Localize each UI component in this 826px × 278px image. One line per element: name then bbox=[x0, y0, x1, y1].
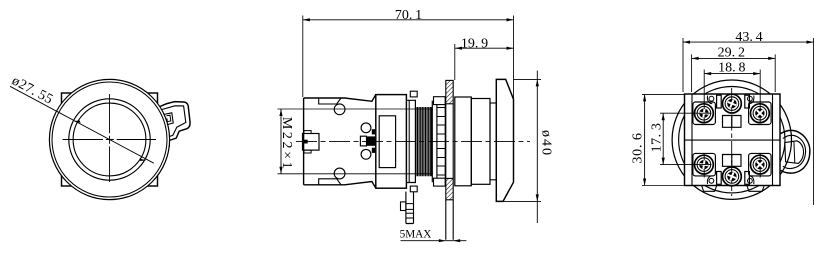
screw center-bottom bbox=[723, 167, 742, 186]
ext lines Ø40 bbox=[503, 79, 541, 201]
screw left-bottom bbox=[695, 155, 714, 174]
screw circle bottom bbox=[334, 168, 345, 179]
latch block left bbox=[303, 134, 320, 151]
screw right-bottom bbox=[751, 155, 770, 174]
tab key cylinder bbox=[785, 141, 804, 164]
svg-text:43. 4: 43. 4 bbox=[735, 30, 762, 45]
middle divider bbox=[685, 139, 781, 141]
panel lines bbox=[446, 104, 453, 240]
latch tab bottom bbox=[304, 150, 311, 153]
screw pads bbox=[693, 102, 716, 125]
body inner rect bbox=[379, 116, 395, 168]
clip notch top bbox=[319, 98, 341, 104]
tiny corner circles bottom bbox=[709, 178, 714, 183]
window squares top bbox=[723, 116, 742, 128]
inner vertical lines bbox=[692, 94, 773, 186]
thread band bbox=[416, 107, 432, 176]
centerline bbox=[296, 140, 530, 142]
dim 18.8 bbox=[704, 73, 760, 75]
M22 extension line top bbox=[278, 108, 434, 110]
screw right-top bbox=[751, 104, 770, 123]
tab key arrow bbox=[167, 115, 171, 122]
screw centerline verticals (18.8 ext through screws) bbox=[704, 94, 760, 178]
plunger circle bottom bbox=[361, 149, 371, 159]
button outer circle bbox=[69, 99, 150, 180]
svg-text:ø40: ø40 bbox=[539, 130, 554, 157]
feet bottom-right bbox=[747, 186, 764, 192]
dim Ø40 line bbox=[536, 71, 538, 224]
screw center-top bbox=[723, 94, 742, 113]
label Ø27.55 bbox=[9, 73, 55, 107]
plunger tick bottom bbox=[372, 148, 375, 153]
tab inner outline bbox=[162, 106, 186, 138]
feet bottom-left bbox=[702, 186, 717, 192]
label M22x1 bbox=[279, 117, 294, 171]
crosshair horizontal centerline bbox=[63, 139, 157, 141]
neck bbox=[490, 103, 496, 180]
ext line left 19.9 bbox=[454, 44, 456, 80]
bezel collar bbox=[455, 97, 472, 186]
label Ø40 bbox=[539, 130, 554, 157]
label 30.6 bbox=[631, 132, 646, 163]
ext line left 70.1 bbox=[302, 16, 304, 98]
dim 30.6 bbox=[644, 94, 646, 185]
terminal block (white fill covers circle) bbox=[685, 94, 781, 186]
bezel outer circle (fill white hides square/tab inner parts) bbox=[49, 79, 169, 199]
front plate bbox=[406, 100, 415, 182]
arrowhead upper-left bbox=[74, 120, 81, 123]
plunger tick top bbox=[372, 129, 375, 134]
screw left-top bbox=[695, 104, 714, 123]
panel section hatch top bbox=[446, 80, 453, 103]
step ring bbox=[471, 99, 490, 185]
arrowhead lower-right bbox=[139, 159, 146, 162]
dim 43.4 bbox=[683, 41, 814, 43]
latch filled square bbox=[303, 140, 308, 144]
mounting square behind bezel bbox=[62, 93, 158, 186]
svg-text:18. 8: 18. 8 bbox=[718, 61, 745, 76]
svg-text:29. 2: 29. 2 bbox=[718, 46, 745, 61]
key tab top bbox=[410, 91, 417, 97]
window squares bottom bbox=[723, 155, 742, 167]
svg-text:M22×1: M22×1 bbox=[279, 117, 294, 171]
dim 70.1 line bbox=[303, 19, 514, 21]
dim 19.9 line bbox=[455, 47, 514, 49]
bezel second circle bbox=[52, 82, 167, 197]
main body rect bbox=[376, 95, 407, 189]
clamp bars top center bbox=[717, 95, 722, 108]
dim 5MAX line bbox=[401, 240, 467, 242]
label 17.3 bbox=[650, 123, 665, 153]
dim 17.3 bbox=[662, 113, 664, 164]
ext line right 70.1 (continues into cap edge) bbox=[513, 16, 515, 100]
vertical centerline bbox=[731, 88, 733, 196]
tiny corner circles top bbox=[709, 96, 714, 101]
plunger black box bbox=[367, 136, 376, 145]
M22 extension line bottom bbox=[278, 173, 434, 175]
anti-rotation tab (right side) outer bbox=[160, 102, 190, 149]
mushroom cap bbox=[496, 79, 513, 201]
terminal block outline bbox=[304, 95, 376, 189]
dim line diag Ø27.55 bbox=[10, 86, 154, 163]
plunger circle top bbox=[361, 123, 371, 133]
tab key square bbox=[164, 113, 174, 125]
crosshair vertical centerline bbox=[109, 94, 111, 182]
clip notch bottom bbox=[319, 179, 341, 185]
panel section hatch bottom bbox=[446, 178, 453, 199]
button inner circle bbox=[73, 103, 146, 176]
svg-text:70. 1: 70. 1 bbox=[395, 8, 422, 23]
terminal hanging bottom bbox=[406, 192, 414, 224]
latch tab top bbox=[304, 131, 311, 134]
plunger white box bbox=[360, 136, 366, 146]
svg-text:5MAX: 5MAX bbox=[400, 229, 432, 241]
inner circle bbox=[679, 87, 785, 193]
locknut bbox=[432, 97, 445, 186]
key tab bottom bbox=[410, 186, 417, 192]
M22x1 dim line bbox=[280, 109, 282, 174]
outer circle bbox=[672, 80, 791, 199]
dim 29.2 bbox=[692, 57, 776, 59]
svg-text:30. 6: 30. 6 bbox=[631, 132, 646, 163]
screw circle top bbox=[334, 104, 345, 115]
svg-text:19. 9: 19. 9 bbox=[461, 36, 488, 51]
tab key line bbox=[793, 142, 796, 163]
clamp bars bottom center bbox=[717, 172, 722, 185]
tab right inner bbox=[783, 135, 806, 168]
tab right outer bbox=[781, 130, 810, 173]
svg-text:17. 3: 17. 3 bbox=[650, 123, 665, 153]
plate inner line bbox=[408, 100, 410, 182]
